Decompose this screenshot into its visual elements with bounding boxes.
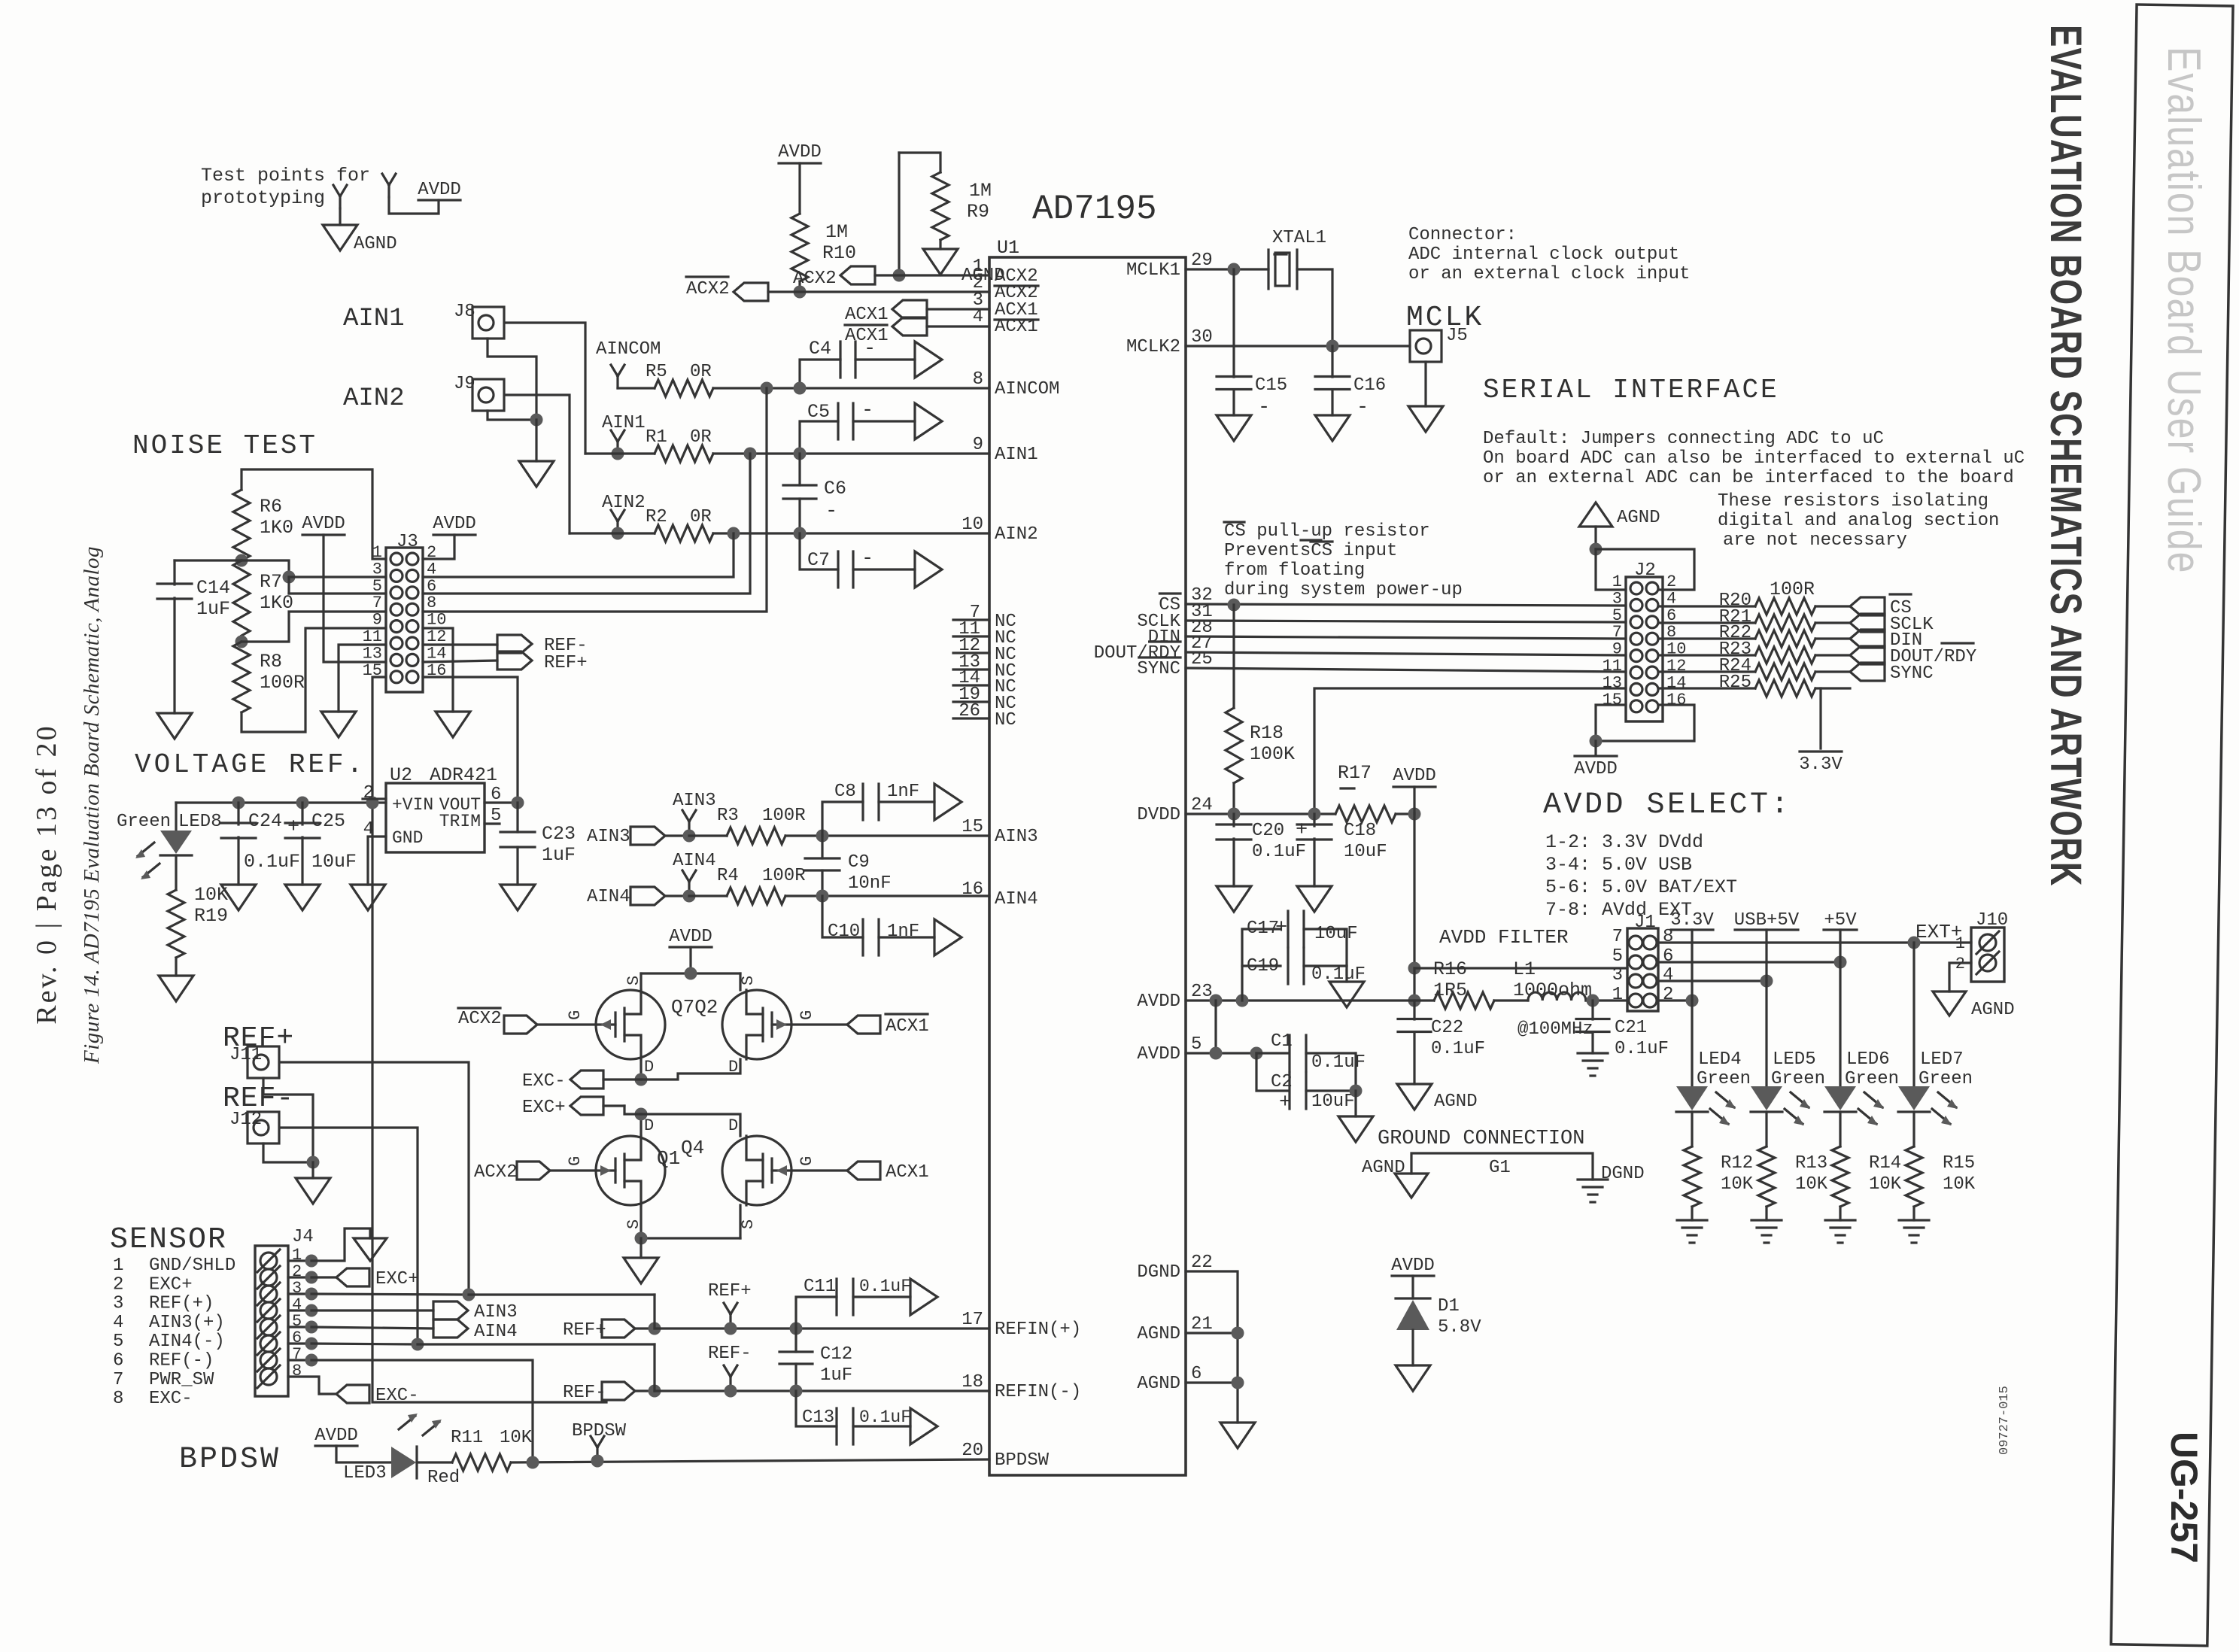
svg-text:SENSOR: SENSOR xyxy=(110,1223,227,1257)
svg-text:C8: C8 xyxy=(834,782,856,802)
svg-text:ACX2: ACX2 xyxy=(686,279,730,299)
flag CSbar output xyxy=(1850,597,1885,615)
svg-text:G: G xyxy=(797,1010,816,1020)
wire CS chip to J2 pin3 xyxy=(1186,604,1626,606)
svg-text:10K: 10K xyxy=(1869,1174,1902,1195)
svg-text:R10: R10 xyxy=(822,242,856,264)
svg-text:S: S xyxy=(739,1219,758,1229)
junction USB+5V xyxy=(1761,975,1773,988)
svg-text:10uF: 10uF xyxy=(1311,1092,1355,1112)
ground at U2 GND xyxy=(351,885,385,910)
svg-text:100R: 100R xyxy=(762,866,806,886)
svg-text:9: 9 xyxy=(973,435,983,455)
svg-text:Rev. 0 | Page 13 of 20: Rev. 0 | Page 13 of 20 xyxy=(31,724,62,1024)
wire REF+ to pin17 xyxy=(655,1327,989,1329)
wire J12 to REF- net xyxy=(281,1128,418,1344)
svg-text:AIN4(-): AIN4(-) xyxy=(149,1332,225,1352)
svg-text:C15: C15 xyxy=(1255,375,1287,396)
flag DIN output xyxy=(1850,630,1885,648)
connector J5 xyxy=(1410,330,1442,362)
resistor R18 100K xyxy=(1232,605,1235,708)
svg-text:6: 6 xyxy=(1191,1364,1202,1384)
test point TP1 xyxy=(339,196,341,208)
svg-text:R2: R2 xyxy=(646,507,667,527)
junction AINCOM/C4 xyxy=(794,382,807,395)
junction AGND bracket xyxy=(1590,543,1603,556)
svg-text:AVDD SELECT:: AVDD SELECT: xyxy=(1543,788,1791,822)
wire DIN chip to J2 pin7 xyxy=(1186,636,1626,639)
svg-text:S: S xyxy=(739,976,758,985)
LED8 light arrows xyxy=(138,843,154,856)
svg-text:5: 5 xyxy=(1612,946,1623,967)
svg-text:26: 26 xyxy=(958,701,980,721)
svg-text:1uF: 1uF xyxy=(542,844,576,866)
svg-text:C18: C18 xyxy=(1344,821,1376,841)
ground AGND at J10 xyxy=(1933,992,1966,1016)
svg-text:11: 11 xyxy=(363,627,382,646)
svg-text:AIN3(+): AIN3(+) xyxy=(149,1313,225,1333)
svg-text:J5: J5 xyxy=(1446,326,1468,346)
junction AIN3/C8/C9 xyxy=(816,830,829,843)
svg-text:14: 14 xyxy=(427,644,446,663)
svg-text:2: 2 xyxy=(1663,985,1673,1005)
junction C15 xyxy=(1228,263,1241,276)
svg-text:Figure 14. AD7195 Evaluation B: Figure 14. AD7195 Evaluation Board Schem… xyxy=(80,546,104,1064)
svg-text:EXC+: EXC+ xyxy=(522,1098,566,1118)
junction AIN3 tp xyxy=(683,830,696,843)
svg-text:Green: Green xyxy=(1845,1069,1899,1089)
svg-text:Green: Green xyxy=(1918,1069,1973,1089)
junction bottom rail xyxy=(635,1232,648,1245)
svg-text:Evaluation Board User Guide: Evaluation Board User Guide xyxy=(2158,47,2211,574)
svg-text:EXC-: EXC- xyxy=(522,1071,566,1092)
svg-text:0R: 0R xyxy=(690,427,712,448)
LED LED4 Green xyxy=(1691,1001,1693,1086)
svg-text:Green: Green xyxy=(117,812,171,832)
wire AIN1 to J3 pin6 xyxy=(423,454,750,594)
svg-text:G: G xyxy=(797,1156,816,1166)
svg-text:16: 16 xyxy=(1666,691,1686,709)
svg-text:3.3V: 3.3V xyxy=(1670,910,1714,931)
svg-text:10: 10 xyxy=(427,611,446,630)
svg-text:AIN2: AIN2 xyxy=(995,524,1038,545)
wire to J3 pin3 xyxy=(289,575,386,578)
svg-text:LED7: LED7 xyxy=(1920,1049,1964,1070)
flag SCLK output xyxy=(1850,614,1885,632)
svg-text:USB+5V: USB+5V xyxy=(1734,910,1800,931)
svg-text:R12: R12 xyxy=(1721,1153,1753,1174)
wire pin24 DVDD xyxy=(1186,812,1335,815)
svg-text:@100MHz: @100MHz xyxy=(1517,1019,1593,1040)
ground AGND under R9 xyxy=(923,249,958,275)
wire J1 pin2 to 3.3V xyxy=(1658,999,1692,1001)
flag ACX1 from Q4 gate xyxy=(791,1169,847,1171)
wire AIN2 to pin10 xyxy=(713,532,989,534)
svg-text:LED5: LED5 xyxy=(1773,1049,1816,1070)
wire J4 pin3 REF(+) xyxy=(311,1294,469,1295)
buffer at C8 xyxy=(934,784,962,820)
svg-text:AVDD FILTER: AVDD FILTER xyxy=(1439,926,1569,949)
svg-text:Q1: Q1 xyxy=(657,1147,680,1170)
svg-text:3: 3 xyxy=(1612,589,1622,608)
junction pin23 drop xyxy=(1210,995,1223,1007)
svg-text:0.1uF: 0.1uF xyxy=(244,851,300,873)
wire SCLK chip to J2 pin5 xyxy=(1186,621,1626,622)
svg-text:DVDD: DVDD xyxy=(1137,805,1180,825)
svg-text:AGND: AGND xyxy=(354,234,397,254)
wire junction to C14 xyxy=(175,559,242,561)
svg-text:2: 2 xyxy=(113,1274,123,1295)
buffer at C7 xyxy=(915,551,942,588)
wire R6 top loop to J3 pin1 xyxy=(242,469,386,559)
svg-text:C24: C24 xyxy=(248,810,282,832)
junction C12/C13 bottom xyxy=(790,1385,803,1398)
wire J3 pin12 to REF- flag xyxy=(423,643,497,645)
svg-text:5.8V: 5.8V xyxy=(1438,1317,1481,1338)
wire REF- to pin18 xyxy=(655,1389,989,1392)
svg-text:0.1uF: 0.1uF xyxy=(1431,1039,1485,1059)
svg-text:AD7195: AD7195 xyxy=(1032,190,1157,229)
wire J10 pin2 to AGND xyxy=(1949,963,1971,992)
svg-text:REF-: REF- xyxy=(708,1344,752,1364)
svg-text:3: 3 xyxy=(113,1294,123,1314)
wire J12 shell xyxy=(263,1143,313,1162)
svg-text:AIN1: AIN1 xyxy=(343,305,405,333)
svg-text:1M: 1M xyxy=(825,221,848,243)
svg-text:22: 22 xyxy=(1191,1253,1213,1273)
svg-text:8: 8 xyxy=(113,1389,123,1409)
wire Q source rail top xyxy=(641,972,740,974)
junction C11/C12 top xyxy=(790,1323,803,1335)
capacitor C21 0.1uF xyxy=(1591,1001,1593,1019)
capacitor C6 xyxy=(798,454,801,485)
svg-text:5: 5 xyxy=(113,1332,123,1352)
wire AIN1 to pin9 xyxy=(713,452,989,454)
svg-text:AVDD: AVDD xyxy=(1137,992,1180,1012)
junction J8/AIN1 xyxy=(612,448,624,460)
junction shells J11 J12 xyxy=(307,1156,320,1169)
junction C16 xyxy=(1326,340,1339,353)
wire AVDD vertical to filter xyxy=(1413,814,1415,968)
svg-text:5-6: 5.0V BAT/EXT: 5-6: 5.0V BAT/EXT xyxy=(1545,876,1737,898)
svg-text:Test points for: Test points for xyxy=(201,165,370,187)
earth ground at R12 xyxy=(1677,1219,1707,1221)
wire pin22 DGND chain xyxy=(1186,1271,1238,1423)
svg-text:G: G xyxy=(566,1010,585,1020)
junction AIN4/C9/C10 xyxy=(816,890,829,903)
svg-text:or an external ADC can be inte: or an external ADC can be interfaced to … xyxy=(1483,468,2014,488)
wire pin23 to pin5 xyxy=(1214,1001,1217,1053)
capacitor C12 1uF xyxy=(794,1329,797,1352)
svg-text:J3: J3 xyxy=(396,532,418,552)
junction AVDD rail xyxy=(685,967,697,980)
svg-text:10nF: 10nF xyxy=(848,873,892,894)
svg-text:10K: 10K xyxy=(1795,1174,1828,1195)
svg-text:R8: R8 xyxy=(260,651,282,673)
junction AIN2 drop to J3 xyxy=(728,527,740,540)
ground at C1/C2 xyxy=(1338,1116,1373,1142)
junction at J3 pin3 line xyxy=(283,571,296,584)
svg-text:15: 15 xyxy=(1603,691,1622,709)
wire pin23 AVDD xyxy=(1186,999,1434,1001)
wire J9 shell to ground xyxy=(488,411,536,420)
wire J11 to REF+ net xyxy=(281,1062,469,1295)
junction C1/C2 xyxy=(1250,1047,1263,1060)
svg-text:SYNC: SYNC xyxy=(1890,664,1934,684)
svg-text:C16: C16 xyxy=(1353,375,1386,396)
svg-text:1000ohm: 1000ohm xyxy=(1513,979,1592,1001)
svg-text:4: 4 xyxy=(1663,965,1673,985)
svg-text:R18: R18 xyxy=(1250,722,1284,744)
test point TP2 xyxy=(387,185,390,197)
wire J4 pin2 to EXC+ xyxy=(311,1276,336,1278)
ground at C24 xyxy=(221,885,256,910)
junction EXT+ xyxy=(1908,937,1921,949)
svg-text:LED4: LED4 xyxy=(1698,1049,1742,1070)
ground at C20 xyxy=(1217,886,1251,912)
svg-text:C20: C20 xyxy=(1252,821,1284,841)
svg-text:AIN3: AIN3 xyxy=(995,827,1038,847)
svg-text:EXC-: EXC- xyxy=(149,1389,193,1409)
earth ground at R13 xyxy=(1751,1219,1782,1221)
svg-text:11: 11 xyxy=(1603,657,1622,676)
junction C25 xyxy=(296,797,309,809)
svg-text:R1: R1 xyxy=(646,427,667,448)
svg-text:EXC+: EXC+ xyxy=(149,1274,193,1295)
wire junction to J3 pin7 xyxy=(242,612,386,642)
svg-text:R5: R5 xyxy=(646,362,667,382)
junction AVDD/pin23 xyxy=(1408,995,1421,1007)
diode D1 5.8V xyxy=(1396,1297,1430,1299)
figure caption: Figure 14. AD7195 Evaluation Board Schematic, Analog xyxy=(80,546,104,1064)
svg-text:Green: Green xyxy=(1771,1069,1825,1089)
wire J3 pin16 to VOUT riser xyxy=(423,677,518,803)
svg-text:during system power-up: during system power-up xyxy=(1224,580,1463,600)
svg-text:D: D xyxy=(728,1116,738,1135)
wire J8 to AIN1 net xyxy=(506,323,585,454)
svg-text:ACX1: ACX1 xyxy=(886,1162,929,1183)
ground at Q block xyxy=(624,1258,658,1283)
ground at C15 xyxy=(1217,415,1251,441)
svg-text:AVDD: AVDD xyxy=(418,180,461,200)
wire J1 pin4 to USB+5V xyxy=(1658,979,1767,982)
svg-text:0R: 0R xyxy=(690,362,712,382)
earth ground at R15 xyxy=(1899,1219,1929,1221)
wire AVDD to J3 pin2 xyxy=(423,535,454,559)
buffer at C13 xyxy=(910,1408,937,1444)
svg-text:1: 1 xyxy=(372,543,382,562)
svg-text:AIN1: AIN1 xyxy=(995,445,1038,465)
svg-text:0.1uF: 0.1uF xyxy=(859,1277,911,1296)
svg-text:C14: C14 xyxy=(196,577,230,599)
svg-text:R13: R13 xyxy=(1795,1153,1827,1174)
junction pin15 riser on +VIN rail xyxy=(366,797,379,809)
drawing code 09727-015 xyxy=(1997,1386,2012,1455)
junction C20/R18 xyxy=(1228,808,1241,821)
svg-text:LED3: LED3 xyxy=(343,1463,387,1483)
svg-text:REF-: REF- xyxy=(563,1383,606,1403)
svg-text:8: 8 xyxy=(427,594,436,612)
svg-text:AIN3: AIN3 xyxy=(474,1302,518,1323)
resistor R13 10K xyxy=(1765,1112,1767,1146)
svg-text:AIN4: AIN4 xyxy=(587,887,630,907)
LED7 light arrows xyxy=(1938,1092,1956,1107)
svg-text:U1: U1 xyxy=(997,237,1019,259)
svg-text:18: 18 xyxy=(962,1372,983,1392)
svg-text:1-2: 3.3V DVdd: 1-2: 3.3V DVdd xyxy=(1545,831,1703,853)
svg-text:prototyping: prototyping xyxy=(201,187,325,209)
flag SYNC output xyxy=(1850,663,1885,681)
LED LED7 Green xyxy=(1912,943,1915,1086)
wire J4 pin4 AIN3 xyxy=(311,1309,433,1311)
flag REF+ at J3 xyxy=(497,651,532,670)
wire J3 pin14 to REF+ flag xyxy=(423,660,497,662)
svg-text:EXC-: EXC- xyxy=(375,1386,419,1406)
resistor R7 1K0 xyxy=(233,560,250,636)
svg-text:AGND: AGND xyxy=(1971,1000,2015,1020)
svg-text:ACX1: ACX1 xyxy=(845,305,889,325)
svg-text:AIN4: AIN4 xyxy=(673,851,716,871)
svg-text:R17: R17 xyxy=(1338,762,1372,784)
capacitor C18 10uF polarized xyxy=(1313,814,1315,826)
capacitor C14 1uF xyxy=(173,560,175,585)
svg-text:AVDD: AVDD xyxy=(1393,766,1436,786)
svg-text:C10: C10 xyxy=(828,922,860,942)
svg-text:R11: R11 xyxy=(451,1428,483,1448)
svg-text:AGND: AGND xyxy=(1137,1374,1180,1394)
svg-text:1nF: 1nF xyxy=(887,782,919,802)
svg-text:ACX1: ACX1 xyxy=(995,317,1038,337)
wire J1 pin8 to EXT+/J10 xyxy=(1658,941,1971,943)
svg-text:100R: 100R xyxy=(762,806,806,826)
svg-text:D1: D1 xyxy=(1438,1296,1460,1316)
svg-text:5: 5 xyxy=(1612,606,1622,625)
transistor Q4 xyxy=(722,1136,791,1205)
svg-text:7: 7 xyxy=(1612,623,1622,642)
resistor R15 10K xyxy=(1912,1112,1915,1146)
capacitor C23 1uF xyxy=(516,803,518,832)
svg-text:AIN4: AIN4 xyxy=(995,889,1038,910)
svg-text:ADC internal clock output: ADC internal clock output xyxy=(1408,244,1679,265)
svg-text:R7: R7 xyxy=(260,571,282,593)
sidebar doc number: UG-257 xyxy=(2163,1432,2205,1563)
svg-text:C21: C21 xyxy=(1615,1018,1647,1038)
svg-text:R16: R16 xyxy=(1433,958,1467,980)
ground AGND at J11/J12 xyxy=(296,1178,330,1204)
resistor R10 1M xyxy=(791,214,808,281)
junction pin6 xyxy=(1232,1377,1244,1389)
svg-text:09727-015: 09727-015 xyxy=(1997,1386,2012,1455)
svg-text:GND/SHLD: GND/SHLD xyxy=(149,1256,235,1276)
svg-text:6: 6 xyxy=(1663,946,1673,967)
svg-text:10K: 10K xyxy=(1943,1174,1976,1195)
svg-text:R9: R9 xyxy=(967,201,989,223)
ground AGND at C22 xyxy=(1397,1084,1432,1110)
svg-text:R4: R4 xyxy=(717,866,739,886)
svg-text:1M: 1M xyxy=(969,180,992,202)
junction C24 xyxy=(232,797,245,809)
resistor R11 10K xyxy=(417,1461,452,1463)
wire EXC+ net xyxy=(639,1114,642,1136)
svg-text:J1: J1 xyxy=(1634,913,1656,933)
svg-text:C9: C9 xyxy=(848,852,870,873)
capacitor C9 10nF xyxy=(821,836,823,858)
svg-text:AIN3: AIN3 xyxy=(587,827,630,847)
svg-text:-: - xyxy=(861,548,873,570)
svg-text:17: 17 xyxy=(962,1310,983,1330)
svg-text:8: 8 xyxy=(973,369,983,390)
svg-text:-: - xyxy=(864,338,876,360)
wire J8 shell to ground xyxy=(488,339,536,420)
resistor R23 xyxy=(1659,654,1755,656)
svg-text:EVALUATION BOARD SCHEMATICS AN: EVALUATION BOARD SCHEMATICS AND ARTWORK xyxy=(2042,25,2091,887)
svg-text:-: - xyxy=(1356,396,1369,419)
wire J4 pin5 AIN4 xyxy=(311,1327,433,1329)
svg-text:D: D xyxy=(644,1058,654,1077)
svg-text:R3: R3 xyxy=(717,806,739,826)
ground at J3 pin11 xyxy=(321,712,356,737)
svg-text:+: + xyxy=(1279,1092,1291,1114)
svg-text:AVDD: AVDD xyxy=(433,514,476,534)
wire J11 shell xyxy=(263,1078,313,1162)
wire junction to J3 pin3 xyxy=(242,560,289,577)
svg-text:10: 10 xyxy=(962,515,983,535)
LED6 light arrows xyxy=(1864,1092,1882,1107)
resistor R12 10K xyxy=(1691,1112,1693,1146)
wire AGND bracket to J2 pins 1 2 xyxy=(1596,549,1694,590)
svg-text:AGND: AGND xyxy=(1617,508,1660,528)
resistor R25 xyxy=(1659,687,1755,689)
svg-text:C25: C25 xyxy=(311,810,345,832)
svg-text:REF+: REF+ xyxy=(544,653,588,673)
svg-text:-: - xyxy=(825,500,837,523)
ground at C23 xyxy=(500,885,535,910)
svg-text:+: + xyxy=(1275,917,1287,940)
svg-text:Default: Jumpers connecting AD: Default: Jumpers connecting ADC to uC xyxy=(1483,429,1884,449)
svg-text:2: 2 xyxy=(363,783,374,803)
junction R17/AVDD xyxy=(1408,808,1421,821)
resistor R19 10K xyxy=(168,890,184,958)
wire pin6 AGND xyxy=(1186,1381,1238,1383)
svg-text:23: 23 xyxy=(1191,982,1213,1002)
svg-text:ACX2: ACX2 xyxy=(474,1162,518,1183)
NC pins 7 11 12 13 14 19 26 xyxy=(953,618,989,621)
svg-text:AVDD: AVDD xyxy=(1137,1044,1180,1064)
svg-text:C13: C13 xyxy=(802,1408,834,1428)
svg-text:C23: C23 xyxy=(542,823,576,845)
junction +5V xyxy=(1834,956,1847,969)
svg-text:-: - xyxy=(1258,396,1270,419)
svg-text:20: 20 xyxy=(962,1441,983,1461)
resistor R3 100R xyxy=(689,834,727,837)
svg-text:from floating: from floating xyxy=(1224,560,1365,581)
svg-text:9: 9 xyxy=(372,611,382,630)
wire R8 bottom to J3 pin9 xyxy=(242,628,386,732)
svg-text:10uF: 10uF xyxy=(1314,924,1358,944)
svg-text:AIN2: AIN2 xyxy=(343,384,405,413)
transistor Q2 xyxy=(722,990,791,1059)
capacitor C15 xyxy=(1232,269,1235,377)
svg-text:3.3V: 3.3V xyxy=(1799,755,1843,775)
svg-text:AGND: AGND xyxy=(1434,1092,1478,1112)
svg-text:TRIM: TRIM xyxy=(439,812,481,831)
resistor R24 xyxy=(1659,670,1755,673)
wire AVDD to J3 pin13 xyxy=(324,535,386,662)
svg-text:+5V: +5V xyxy=(1824,910,1857,931)
svg-text:C7: C7 xyxy=(807,549,830,571)
flag AIN3 at J4 xyxy=(433,1301,468,1319)
svg-text:1uF: 1uF xyxy=(820,1365,852,1386)
